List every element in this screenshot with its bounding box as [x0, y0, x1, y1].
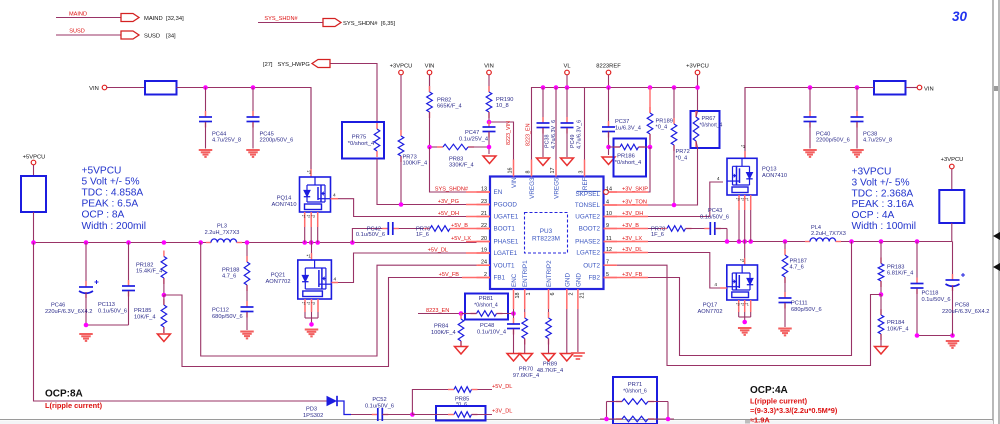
- svg-text:GND: GND: [575, 273, 582, 287]
- svg-text:PC52: PC52: [372, 397, 386, 403]
- power +3VPCU output: [941, 157, 964, 190]
- pin 2 GND (bottom): [564, 273, 574, 309]
- power 8223REF: [596, 64, 621, 88]
- ground GND pin: [560, 309, 573, 361]
- net label +3V_PG: [438, 199, 459, 205]
- svg-text:OCP:8A: OCP:8A: [45, 389, 83, 400]
- junction dots PR71: [604, 417, 670, 422]
- pin 13 EN: [477, 187, 503, 197]
- wire VOUT1 sense: [201, 243, 477, 357]
- wire 8223_EN net: [418, 308, 461, 314]
- svg-text:PC58: PC58: [955, 303, 969, 309]
- fuse/jumper +3VPCU: [939, 190, 964, 242]
- resistor PR67 (boxed): [691, 111, 723, 148]
- wire VREG5 pin: [555, 88, 557, 161]
- svg-text:SKPSEL: SKPSEL: [575, 191, 600, 198]
- junction dot PR189/PR186: [648, 145, 653, 150]
- pin 14 SKPSEL: [575, 187, 617, 199]
- text OCP:4A: [750, 385, 788, 396]
- wire PQ17 drain: [740, 242, 745, 266]
- wire PC118 ground link: [917, 335, 953, 337]
- svg-text:VIN: VIN: [484, 64, 494, 70]
- svg-text:PC118: PC118: [922, 291, 939, 297]
- svg-text:+3VPCU: +3VPCU: [390, 64, 413, 70]
- svg-text:PC46: PC46: [51, 303, 65, 309]
- svg-text:680p/50V_6: 680p/50V_6: [791, 307, 822, 313]
- svg-text:PQ13: PQ13: [762, 167, 777, 173]
- svg-text:L(ripple current): L(ripple current): [45, 401, 103, 410]
- svg-text:6.81K/F_4: 6.81K/F_4: [887, 271, 913, 277]
- svg-text:VL: VL: [563, 64, 571, 70]
- resistor PR189: [647, 88, 673, 148]
- wire PQ13 sources: [736, 195, 751, 242]
- resistor PR86 (boxed): [412, 406, 492, 421]
- junction dots LX rail: [302, 240, 354, 245]
- svg-text:+5VPCU: +5VPCU: [82, 166, 122, 177]
- text L(ripple current) right: [750, 397, 838, 424]
- svg-text:4: 4: [333, 193, 336, 199]
- resistor PR71 (boxed): [600, 377, 674, 424]
- IC PU3 RT8223M: [490, 177, 604, 290]
- svg-text:+3V_DL: +3V_DL: [492, 409, 512, 415]
- svg-text:*0_4: *0_4: [676, 156, 688, 162]
- svg-text:4.7_6: 4.7_6: [222, 274, 236, 280]
- svg-text:FB1: FB1: [494, 275, 506, 282]
- svg-text:VIN: VIN: [425, 64, 435, 70]
- pin 1 ENTRIP1 (bottom): [522, 260, 532, 309]
- wire PQ21 sources: [302, 299, 318, 324]
- wire OUT2 sense: [617, 265, 881, 365]
- ground GND pin 2: [571, 309, 585, 359]
- net label +3V_B: [622, 223, 639, 229]
- junction dot PQ21 source: [309, 322, 314, 327]
- wire UGATE2 to PQ13 gate: [617, 176, 723, 217]
- net label +5V_B: [451, 223, 468, 229]
- transistor PQ13 AON7410: [727, 158, 787, 195]
- junction dot 8223_VIN node: [487, 120, 492, 125]
- svg-text:220uF/6.3V_6X4.2: 220uF/6.3V_6X4.2: [45, 309, 92, 315]
- svg-text:1F_6: 1F_6: [416, 232, 429, 238]
- svg-text:0.1u/50V_6: 0.1u/50V_6: [700, 215, 729, 221]
- port SYS_SHDN#: [258, 16, 395, 27]
- ground PC44: [199, 150, 213, 157]
- wire stub UGATE1 row: [466, 216, 490, 218]
- ground PC47: [483, 156, 496, 164]
- net label +5V_LX: [451, 236, 471, 242]
- resistor PR82: [427, 75, 462, 147]
- capacitor PC47: [459, 121, 496, 154]
- junction dots +3V LX rail: [725, 239, 788, 244]
- svg-text:+3VPCU: +3VPCU: [852, 167, 892, 178]
- capacitor PC112: [212, 301, 254, 330]
- text L(ripple current) left: [45, 401, 103, 410]
- text block +3VPCU specs: [852, 167, 917, 233]
- pin 8 VREG3 (top): [526, 160, 537, 199]
- svg-text:PC43: PC43: [708, 208, 722, 214]
- svg-text:PU3: PU3: [540, 228, 553, 235]
- pin 22 BOOT1: [477, 223, 516, 233]
- ground PC58: [946, 341, 960, 348]
- svg-text:BOOT2: BOOT2: [579, 226, 601, 233]
- svg-text:AON7702: AON7702: [698, 309, 723, 315]
- svg-text:OCP : 8A: OCP : 8A: [82, 210, 125, 221]
- net label +5V_DL (bottom): [492, 384, 512, 390]
- svg-text:+3VPCU: +3VPCU: [686, 64, 709, 70]
- svg-text:PR84: PR84: [434, 324, 448, 330]
- svg-text:0.1u/25V_4: 0.1u/25V_4: [459, 137, 488, 143]
- wire stub LGATE1 row: [466, 252, 490, 254]
- svg-text:0.1u/50V_6: 0.1u/50V_6: [356, 232, 385, 238]
- svg-text:330K/F_4: 330K/F_4: [449, 163, 474, 169]
- svg-text:1PS302: 1PS302: [303, 413, 323, 419]
- junction dot PGOOD/PR73: [399, 202, 404, 207]
- power VIN (first): [425, 64, 435, 93]
- capacitor PC46: [45, 243, 99, 326]
- resistor PR81 (boxed): [461, 294, 514, 320]
- wire +3V LX rail: [617, 241, 810, 243]
- capacitor PC40: [804, 88, 850, 149]
- svg-text:4.7_6: 4.7_6: [790, 265, 804, 271]
- svg-text:1u/6.3V_4: 1u/6.3V_4: [615, 126, 641, 132]
- svg-text:17: 17: [550, 168, 556, 174]
- resistor PR76: [416, 226, 456, 238]
- wire diode to PC52: [351, 414, 377, 416]
- wire PQ17 sources: [736, 300, 751, 322]
- svg-text:3: 3: [579, 171, 585, 174]
- resistor PR185: [134, 295, 167, 333]
- wire stub PHASE1 row: [466, 241, 490, 243]
- wire VIN bus left: [177, 88, 312, 170]
- ground PC38: [537, 158, 550, 166]
- pin 3 REF (top): [579, 160, 590, 191]
- sheet number 30: [952, 9, 968, 24]
- svg-text:VOUT1: VOUT1: [494, 262, 515, 269]
- svg-text:*3 *2 *1: *3 *2 *1: [736, 303, 749, 307]
- pin 2 FB1: [477, 272, 506, 282]
- svg-text:ENC: ENC: [511, 273, 518, 287]
- svg-text:PC37: PC37: [615, 119, 629, 125]
- svg-text:48.7K/F_4: 48.7K/F_4: [537, 368, 563, 374]
- svg-text:10K/F_4: 10K/F_4: [887, 327, 909, 333]
- pin 7 OUT2: [583, 260, 617, 270]
- svg-text:PD3: PD3: [306, 407, 317, 413]
- net label +5V_DH: [438, 211, 459, 217]
- svg-text:6: 6: [550, 293, 556, 296]
- resistor PR70: [513, 309, 539, 379]
- svg-text:VREG3: VREG3: [529, 177, 536, 199]
- ground PC46: [79, 334, 93, 341]
- power +3VPCU (right): [686, 64, 709, 112]
- wire PQ14 sources: [302, 212, 318, 243]
- pin 16 VIN (top): [508, 160, 519, 189]
- svg-text:30: 30: [952, 9, 968, 24]
- wire SKPSEL net right: [617, 147, 650, 192]
- svg-text:*1: *1: [740, 258, 745, 263]
- svg-text:SYS_SHDN#: SYS_SHDN#: [264, 16, 298, 22]
- svg-text:PR81: PR81: [479, 296, 494, 302]
- wire VIN bus right: [745, 88, 874, 159]
- svg-text:2.2uH_7X7X3: 2.2uH_7X7X3: [205, 230, 240, 236]
- svg-text:UGATE2: UGATE2: [575, 214, 600, 221]
- wire stub UGATE2 row: [604, 216, 649, 218]
- junction dots VL bus: [541, 85, 700, 90]
- resistor PR85: [448, 387, 478, 408]
- capacitor PC45: [247, 88, 294, 149]
- svg-text:10_8: 10_8: [496, 103, 509, 109]
- text block +5VPCU specs: [82, 166, 147, 232]
- pin 19 LGATE1: [477, 248, 518, 258]
- capacitor PC111: [779, 292, 822, 327]
- wire stub VOUT1 row: [478, 264, 490, 266]
- svg-text:4: 4: [717, 176, 720, 182]
- svg-text:16: 16: [508, 168, 514, 174]
- svg-text:PL3: PL3: [217, 224, 227, 230]
- svg-text:VREG5: VREG5: [554, 177, 561, 199]
- svg-text:1F_6: 1F_6: [651, 232, 664, 238]
- svg-text:PHASE2: PHASE2: [575, 239, 600, 246]
- pin 6 ENTRIP2 (bottom): [546, 260, 556, 309]
- svg-text:LGATE1: LGATE1: [494, 250, 518, 257]
- wire stub EN row: [466, 191, 490, 193]
- ground PQ17: [738, 328, 752, 335]
- svg-text:+3V_PG: +3V_PG: [438, 199, 459, 205]
- svg-text:8223_EN: 8223_EN: [426, 308, 449, 314]
- svg-text:AON7410: AON7410: [272, 202, 297, 208]
- svg-text:8223_EN: 8223_EN: [526, 123, 532, 146]
- power +3VPCU (left): [390, 64, 413, 137]
- wire VL bus: [526, 88, 698, 161]
- svg-text:SYS_SHDN#: SYS_SHDN#: [435, 187, 469, 193]
- svg-text:2200p/50V_6: 2200p/50V_6: [260, 138, 294, 144]
- svg-text:PC48: PC48: [480, 323, 494, 329]
- power VIN input (left): [89, 85, 107, 92]
- net label +3V_LX: [622, 236, 642, 242]
- svg-text:220uF/6.3V_6X4.2: 220uF/6.3V_6X4.2: [942, 309, 989, 315]
- wire FB1 sense: [164, 278, 477, 367]
- pin 18 ENC (bottom): [511, 273, 521, 309]
- resistor PR73: [398, 130, 427, 205]
- pin 21 GND (bottom): [575, 273, 585, 309]
- svg-text:100K/F_4: 100K/F_4: [403, 161, 428, 167]
- svg-text:PQ14: PQ14: [277, 196, 292, 202]
- svg-text:4.7u/6.3V_6: 4.7u/6.3V_6: [577, 120, 583, 149]
- ground PR89: [542, 354, 555, 362]
- port MAIND: [56, 12, 184, 23]
- svg-text:LGATE2: LGATE2: [576, 250, 600, 257]
- net label SYS_SHDN#: [435, 187, 469, 193]
- svg-text:97.6K/F_4: 97.6K/F_4: [513, 373, 539, 379]
- svg-text:PC38: PC38: [545, 135, 551, 149]
- junction dots VIN bus left: [203, 85, 255, 90]
- wire PQ14 gate: [331, 193, 477, 217]
- svg-text:+5V_DL: +5V_DL: [492, 384, 512, 390]
- resistor PR78: [617, 226, 710, 238]
- sheet right border: [993, 0, 1000, 424]
- svg-text:ENTRIP1: ENTRIP1: [522, 260, 529, 287]
- svg-text:*0/short_4: *0/short_4: [474, 303, 498, 309]
- svg-text:MAIND: MAIND: [144, 16, 163, 22]
- svg-text:[27]: [27]: [263, 62, 273, 68]
- transistor PQ17 AON7702: [698, 265, 758, 315]
- pin 20 PHASE1: [477, 236, 519, 246]
- power VIN input (right): [917, 85, 933, 92]
- svg-text:0.1u/50V_6: 0.1u/50V_6: [98, 309, 127, 315]
- svg-text:ENTRIP2: ENTRIP2: [546, 260, 553, 287]
- ground PC111: [778, 329, 792, 336]
- ground PC49: [561, 158, 574, 166]
- svg-text:PC111: PC111: [791, 301, 808, 307]
- capacitor PC37: [602, 88, 641, 156]
- svg-text:*1: *1: [307, 170, 312, 175]
- wire BOOT1 net: [352, 229, 476, 243]
- svg-text:PR186: PR186: [617, 154, 635, 160]
- resistor PR182: [136, 251, 167, 296]
- resistor PR187: [782, 242, 807, 299]
- resistor PR188: [222, 243, 250, 308]
- svg-text:0.1u/50V_6: 0.1u/50V_6: [922, 297, 951, 303]
- net label +3V_TON: [622, 200, 647, 206]
- svg-text:15.4K/F_4: 15.4K/F_4: [136, 269, 162, 275]
- junction dot PC52/PR85: [410, 412, 415, 417]
- capacitor PC44: [199, 88, 241, 149]
- svg-text:OCP:4A: OCP:4A: [750, 385, 788, 396]
- svg-text:PR67: PR67: [702, 116, 716, 122]
- pin 9 BOOT2: [579, 223, 617, 233]
- net label +3V_SKIP: [622, 187, 648, 193]
- svg-text:*0/short_4: *0/short_4: [700, 123, 723, 129]
- text OCP:8A: [45, 389, 83, 400]
- svg-text:0.1u/50V_6: 0.1u/50V_6: [365, 404, 394, 410]
- resistor PR84: [431, 313, 464, 347]
- svg-text:SYS_HWPG: SYS_HWPG: [278, 62, 310, 68]
- svg-text:*0_4: *0_4: [656, 125, 668, 131]
- capacitor PC113: [98, 243, 135, 326]
- resistor PR89: [537, 309, 563, 374]
- junction dots +3V output rail: [849, 239, 919, 244]
- wire stub BOOT1 row: [456, 228, 490, 230]
- svg-text:TDC : 4.858A: TDC : 4.858A: [82, 188, 144, 199]
- inductor PL4: [810, 225, 846, 242]
- pin 24 VOUT1: [477, 260, 515, 270]
- svg-text:OUT2: OUT2: [583, 262, 600, 269]
- wire +5V output rail: [34, 242, 212, 244]
- net label +3V_DH: [622, 211, 643, 217]
- wire +5V_DL branch: [412, 390, 492, 415]
- pin 11 PHASE2: [575, 236, 617, 246]
- wire stub OUT2 row: [604, 264, 617, 266]
- wire EN net: [430, 147, 477, 192]
- ground PC37: [602, 157, 615, 165]
- svg-text:0.1u/10V_4: 0.1u/10V_4: [477, 330, 506, 336]
- capacitor PC52: [365, 397, 412, 421]
- wire stub BOOT2 row: [604, 228, 649, 230]
- svg-text:VIN: VIN: [924, 87, 934, 93]
- resistor PR83: [430, 144, 490, 168]
- transistor PQ14 AON7410: [272, 177, 331, 212]
- svg-text:PR89: PR89: [543, 362, 557, 368]
- net label +5V_DL: [428, 248, 448, 254]
- wire stub LGATE2 row: [604, 252, 649, 254]
- wire stub PGOOD row: [466, 204, 490, 206]
- resistor PR190: [486, 86, 513, 122]
- junction dot PR183/PR184: [879, 292, 884, 297]
- junction dot ENC node: [511, 311, 516, 316]
- svg-text:[6,35]: [6,35]: [381, 21, 395, 27]
- svg-text:TONSEL: TONSEL: [575, 202, 601, 209]
- wire stub TONSEL row: [604, 204, 649, 206]
- svg-text:FB2: FB2: [588, 275, 600, 282]
- junction dots +5V rail: [31, 240, 203, 245]
- svg-text:GND: GND: [564, 273, 571, 287]
- svg-text:PEAK : 6.5A: PEAK : 6.5A: [82, 199, 139, 210]
- svg-text:PC112: PC112: [212, 308, 229, 314]
- wire stub SKPSEL row: [609, 191, 649, 193]
- svg-text:PEAK : 3.16A: PEAK : 3.16A: [852, 199, 914, 210]
- svg-text:PHASE1: PHASE1: [494, 239, 519, 246]
- resistor PR186 (boxed): [609, 139, 651, 177]
- svg-text:AON7410: AON7410: [762, 173, 787, 179]
- wire PQ13 drain: [741, 88, 746, 158]
- wire PQ14 drain: [307, 88, 312, 177]
- svg-text:2.2uH_7X7X3: 2.2uH_7X7X3: [811, 231, 846, 237]
- svg-text:≈1.9A: ≈1.9A: [750, 416, 770, 424]
- svg-text:RT8223M: RT8223M: [532, 236, 560, 243]
- svg-text:SYS_SHDN#: SYS_SHDN#: [343, 21, 378, 27]
- resistor PR75 (boxed): [342, 122, 384, 159]
- port SUSD: [56, 29, 176, 40]
- resistor PR184: [878, 295, 908, 347]
- svg-text:L(ripple current): L(ripple current): [750, 397, 808, 406]
- pin 5 FB2: [588, 272, 617, 282]
- svg-text:Width : 100mil: Width : 100mil: [852, 221, 917, 232]
- ground PC45: [246, 150, 260, 157]
- svg-text:TDC : 2.368A: TDC : 2.368A: [852, 188, 914, 199]
- svg-text:8223REF: 8223REF: [596, 64, 621, 70]
- svg-text:=(9-3.3)*3.3/(2.2u*0.5M*9): =(9-3.3)*3.3/(2.2u*0.5M*9): [750, 406, 838, 415]
- svg-text:2200p/50V_6: 2200p/50V_6: [816, 138, 850, 144]
- diode PD3 1PS302: [303, 396, 351, 419]
- power +5VPCU: [23, 155, 46, 177]
- svg-text:Width : 200mil: Width : 200mil: [82, 221, 147, 232]
- svg-text:SUSD: SUSD: [69, 29, 85, 35]
- ground PC40: [803, 150, 817, 157]
- svg-text:4.7u/25V_8: 4.7u/25V_8: [863, 138, 892, 144]
- transistor PQ21 AON7702: [266, 260, 332, 299]
- wire PGOOD net: [377, 159, 477, 205]
- svg-text:EN: EN: [494, 189, 503, 196]
- pin 23 PGOOD: [477, 199, 518, 209]
- svg-text:PQ21: PQ21: [271, 273, 286, 279]
- svg-text:PC47: PC47: [465, 130, 479, 136]
- svg-text:MAIND: MAIND: [69, 12, 87, 18]
- wire PC46/PC113 ground link: [86, 324, 129, 326]
- svg-text:*1: *1: [307, 254, 312, 259]
- ground PC38 (bulk): [850, 150, 864, 157]
- svg-text:4.7u/25V_8: 4.7u/25V_8: [212, 138, 241, 144]
- svg-text:PR71: PR71: [628, 382, 643, 388]
- capacitor PC38: [537, 88, 558, 158]
- junction dots PC118/PC58 gnd: [915, 333, 955, 338]
- resistor PR72: [671, 88, 690, 206]
- svg-text:+5VPCU: +5VPCU: [23, 155, 46, 161]
- capacitor PC43: [700, 208, 729, 242]
- pin 10 UGATE2: [575, 211, 617, 221]
- svg-text:PR75: PR75: [352, 135, 367, 141]
- svg-text:REF: REF: [582, 177, 589, 190]
- svg-text:4: 4: [714, 282, 717, 288]
- junction dot PC37 low: [606, 145, 611, 150]
- svg-text:680p/50V_6: 680p/50V_6: [212, 314, 243, 320]
